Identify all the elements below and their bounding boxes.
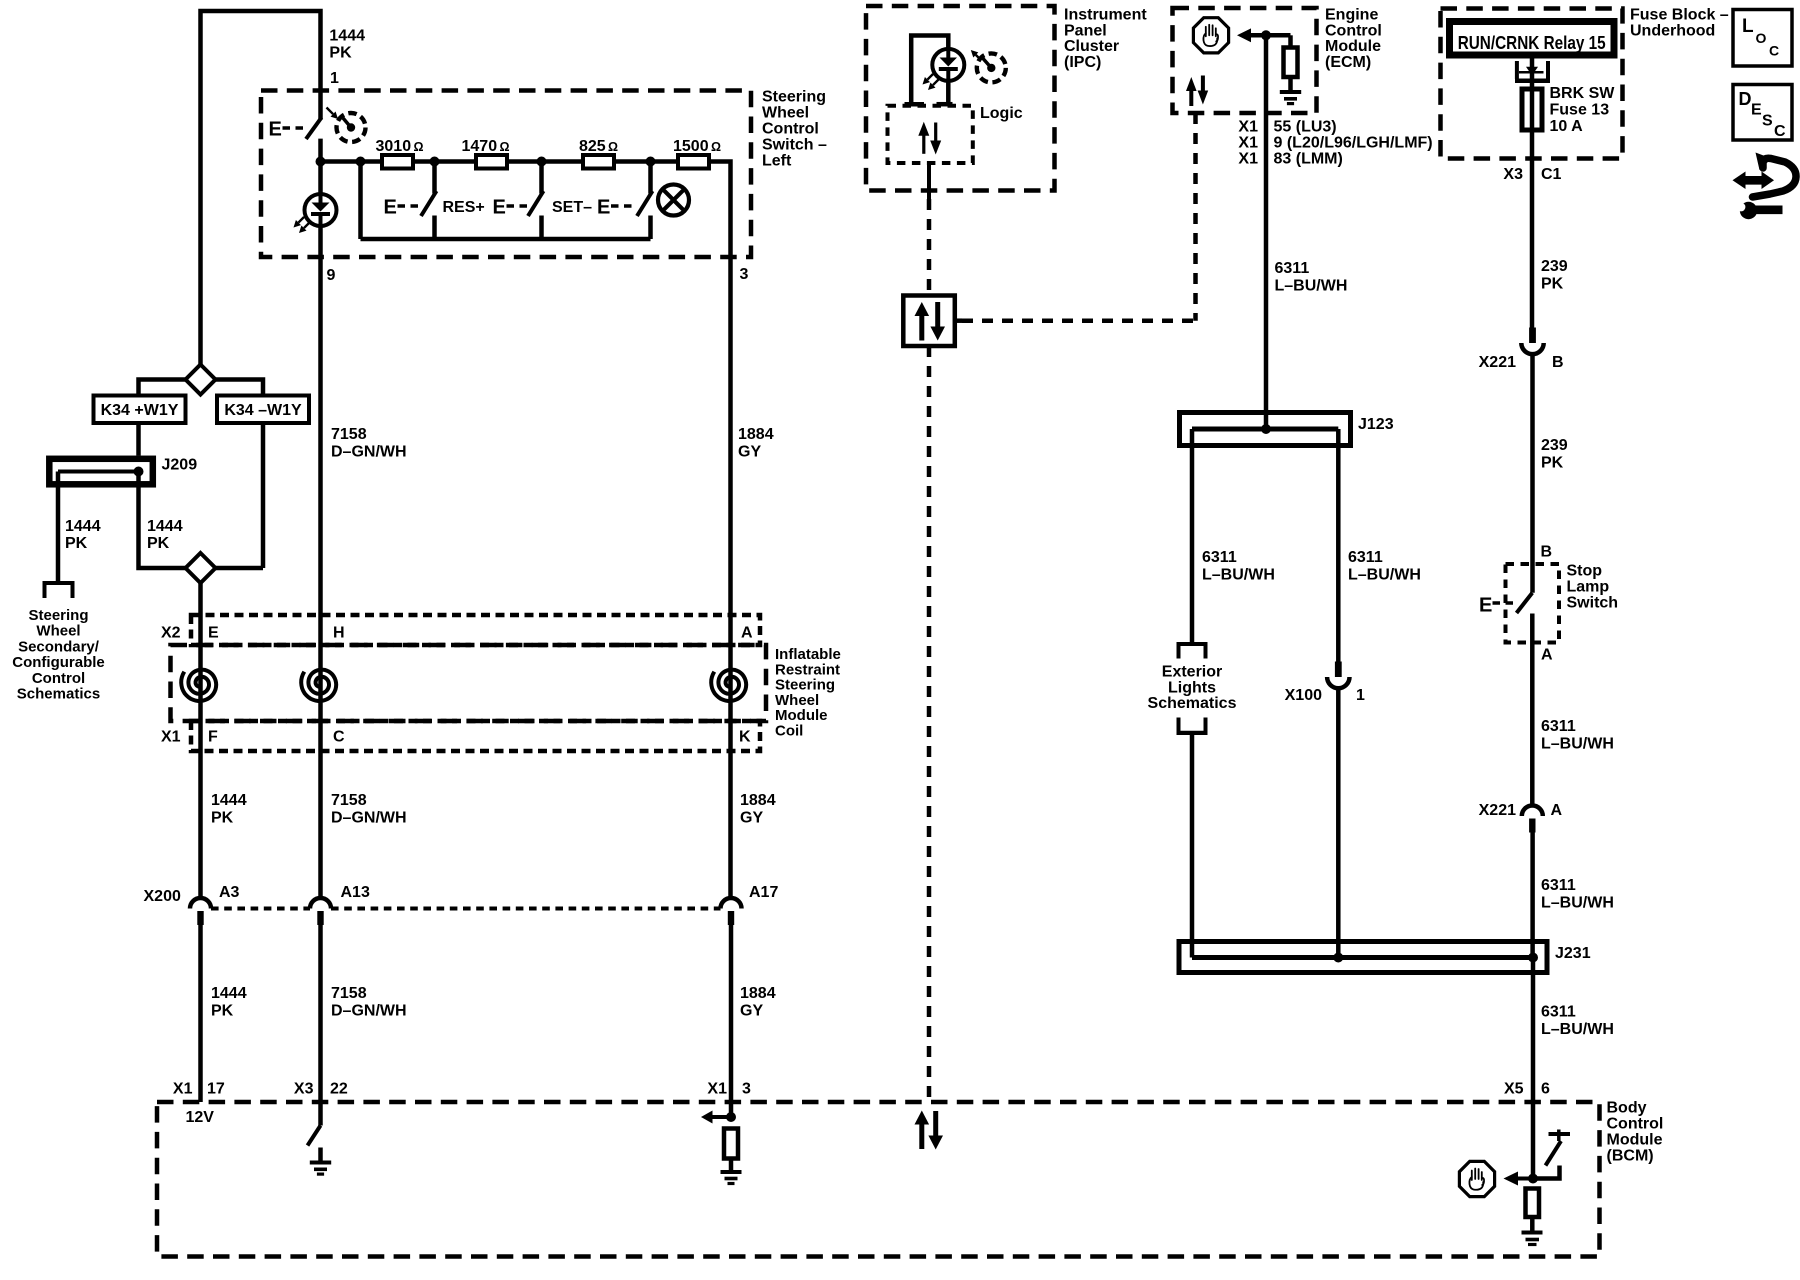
- svg-text:F: F: [208, 729, 218, 746]
- svg-text:C: C: [1774, 123, 1786, 140]
- svg-text:X1: X1: [707, 1081, 727, 1098]
- svg-text:L–BU/WH: L–BU/WH: [1202, 567, 1275, 584]
- svg-text:(BCM): (BCM): [1607, 1148, 1654, 1165]
- svg-text:RUN/CRNK Relay 15: RUN/CRNK Relay 15: [1458, 33, 1606, 53]
- svg-text:(ECM): (ECM): [1325, 54, 1371, 71]
- svg-text:Lights: Lights: [1168, 679, 1216, 696]
- svg-text:Ω: Ω: [500, 140, 510, 154]
- svg-text:1444: 1444: [211, 985, 247, 1002]
- svg-text:Module: Module: [1325, 38, 1381, 55]
- svg-text:1884: 1884: [740, 985, 776, 1002]
- svg-text:1884: 1884: [740, 792, 776, 809]
- svg-text:B: B: [1552, 354, 1564, 371]
- svg-text:6311: 6311: [1275, 260, 1310, 277]
- svg-text:Ω: Ω: [711, 140, 721, 154]
- svg-text:9 (L20/L96/LGH/LMF): 9 (L20/L96/LGH/LMF): [1274, 135, 1433, 152]
- svg-text:Logic: Logic: [980, 105, 1023, 122]
- svg-text:Fuse 13: Fuse 13: [1550, 101, 1610, 118]
- svg-text:6311: 6311: [1541, 1004, 1576, 1021]
- svg-text:A17: A17: [749, 884, 778, 901]
- svg-text:E: E: [493, 197, 506, 219]
- svg-text:PK: PK: [329, 45, 352, 62]
- svg-text:RES+: RES+: [443, 199, 485, 216]
- svg-text:S: S: [1762, 113, 1773, 130]
- svg-text:Ω: Ω: [414, 140, 424, 154]
- svg-text:Stop: Stop: [1567, 563, 1603, 580]
- svg-text:Schematics: Schematics: [17, 686, 100, 703]
- svg-text:D–GN/WH: D–GN/WH: [331, 810, 407, 827]
- svg-text:PK: PK: [1541, 276, 1564, 293]
- svg-text:L–BU/WH: L–BU/WH: [1541, 736, 1614, 753]
- svg-text:Panel: Panel: [1064, 22, 1107, 39]
- svg-text:Underhood: Underhood: [1630, 23, 1715, 40]
- svg-text:B: B: [1541, 544, 1553, 561]
- svg-text:E: E: [384, 197, 397, 219]
- svg-text:A13: A13: [341, 884, 370, 901]
- svg-text:E: E: [1751, 102, 1762, 119]
- svg-text:Wheel: Wheel: [762, 105, 809, 122]
- svg-text:Secondary/: Secondary/: [18, 638, 100, 655]
- svg-text:7158: 7158: [331, 792, 367, 809]
- svg-text:O: O: [1756, 30, 1767, 46]
- svg-text:X1: X1: [1238, 135, 1258, 152]
- svg-text:Engine: Engine: [1325, 7, 1378, 24]
- svg-text:K34 –W1Y: K34 –W1Y: [224, 402, 302, 419]
- svg-text:X200: X200: [144, 888, 181, 905]
- svg-text:L–BU/WH: L–BU/WH: [1541, 895, 1614, 912]
- svg-text:Control: Control: [32, 670, 85, 687]
- svg-text:K: K: [739, 729, 751, 746]
- svg-text:X1: X1: [1238, 119, 1258, 136]
- svg-text:A: A: [741, 625, 753, 642]
- svg-text:1884: 1884: [738, 426, 774, 443]
- svg-text:825: 825: [579, 138, 606, 155]
- svg-text:A: A: [1541, 647, 1553, 664]
- svg-text:Steering: Steering: [28, 607, 88, 624]
- svg-text:L–BU/WH: L–BU/WH: [1275, 278, 1348, 295]
- svg-text:3: 3: [742, 1081, 751, 1098]
- svg-text:Configurable: Configurable: [12, 654, 105, 671]
- svg-text:X221: X221: [1479, 802, 1516, 819]
- svg-text:3: 3: [740, 266, 749, 283]
- svg-text:1444: 1444: [147, 518, 183, 535]
- svg-text:Coil: Coil: [775, 723, 803, 740]
- svg-text:GY: GY: [740, 1003, 763, 1020]
- svg-text:A3: A3: [219, 884, 240, 901]
- svg-text:7158: 7158: [331, 985, 367, 1002]
- svg-text:PK: PK: [1541, 455, 1564, 472]
- svg-text:1444: 1444: [65, 518, 101, 535]
- svg-text:D–GN/WH: D–GN/WH: [331, 1003, 407, 1020]
- svg-text:Wheel: Wheel: [36, 623, 80, 640]
- svg-text:SET–: SET–: [552, 199, 592, 216]
- svg-text:6311: 6311: [1202, 549, 1237, 566]
- svg-text:55 (LU3): 55 (LU3): [1274, 119, 1337, 136]
- svg-text:9: 9: [327, 267, 336, 284]
- svg-text:C: C: [1769, 43, 1779, 59]
- svg-text:Switch –: Switch –: [762, 137, 827, 154]
- svg-text:239: 239: [1541, 437, 1568, 454]
- svg-text:D: D: [1739, 89, 1752, 109]
- svg-text:E: E: [208, 625, 219, 642]
- svg-text:1470: 1470: [462, 138, 498, 155]
- svg-text:BRK SW: BRK SW: [1550, 85, 1616, 102]
- svg-text:Schematics: Schematics: [1148, 695, 1237, 712]
- svg-text:X2: X2: [161, 625, 181, 642]
- svg-text:K34 +W1Y: K34 +W1Y: [101, 402, 179, 419]
- svg-text:E: E: [269, 119, 282, 141]
- svg-text:7158: 7158: [331, 426, 367, 443]
- svg-text:1444: 1444: [211, 792, 247, 809]
- svg-text:Control: Control: [1325, 22, 1382, 39]
- svg-text:X5: X5: [1504, 1081, 1524, 1098]
- svg-text:Exterior: Exterior: [1162, 664, 1222, 681]
- svg-text:J209: J209: [162, 457, 198, 474]
- svg-text:D–GN/WH: D–GN/WH: [331, 444, 407, 461]
- svg-text:Body: Body: [1607, 1100, 1647, 1117]
- svg-text:1: 1: [330, 70, 339, 87]
- svg-text:X1: X1: [173, 1081, 193, 1098]
- svg-text:6311: 6311: [1348, 549, 1383, 566]
- svg-text:6311: 6311: [1541, 718, 1576, 735]
- svg-text:6: 6: [1541, 1081, 1550, 1098]
- svg-text:J231: J231: [1555, 945, 1591, 962]
- svg-text:Control: Control: [1607, 1116, 1664, 1133]
- svg-text:C1: C1: [1541, 166, 1562, 183]
- svg-text:L: L: [1742, 16, 1754, 37]
- svg-text:X3: X3: [1503, 166, 1523, 183]
- svg-text:17: 17: [207, 1081, 225, 1098]
- svg-text:J123: J123: [1358, 416, 1394, 433]
- svg-text:Ω: Ω: [608, 140, 618, 154]
- svg-text:GY: GY: [738, 444, 761, 461]
- svg-text:E: E: [1479, 595, 1492, 617]
- svg-text:H: H: [333, 625, 345, 642]
- svg-text:22: 22: [330, 1081, 348, 1098]
- svg-text:Steering: Steering: [762, 89, 826, 106]
- svg-text:239: 239: [1541, 258, 1568, 275]
- svg-text:Switch: Switch: [1567, 595, 1619, 612]
- svg-text:X100: X100: [1285, 687, 1322, 704]
- svg-text:Left: Left: [762, 153, 792, 170]
- svg-text:10 A: 10 A: [1550, 118, 1584, 135]
- svg-text:X1: X1: [1238, 151, 1258, 168]
- svg-text:A: A: [1551, 802, 1563, 819]
- svg-text:83 (LMM): 83 (LMM): [1274, 151, 1343, 168]
- svg-text:PK: PK: [211, 1003, 234, 1020]
- svg-text:Fuse Block –: Fuse Block –: [1630, 7, 1729, 24]
- svg-text:X221: X221: [1479, 354, 1516, 371]
- svg-text:PK: PK: [65, 535, 88, 552]
- svg-text:C: C: [333, 729, 345, 746]
- svg-text:PK: PK: [147, 535, 170, 552]
- svg-text:E: E: [597, 197, 610, 219]
- svg-text:6311: 6311: [1541, 877, 1576, 894]
- svg-text:PK: PK: [211, 810, 234, 827]
- svg-text:GY: GY: [740, 810, 763, 827]
- svg-text:(IPC): (IPC): [1064, 54, 1101, 71]
- svg-text:Module: Module: [1607, 1132, 1663, 1149]
- svg-text:1444: 1444: [329, 28, 365, 45]
- svg-text:12V: 12V: [186, 1109, 215, 1126]
- svg-text:Lamp: Lamp: [1567, 579, 1610, 596]
- svg-text:Control: Control: [762, 121, 819, 138]
- svg-text:1: 1: [1356, 687, 1365, 704]
- svg-text:3010: 3010: [376, 138, 412, 155]
- svg-text:Cluster: Cluster: [1064, 38, 1119, 55]
- svg-text:1500: 1500: [673, 138, 709, 155]
- svg-text:X1: X1: [161, 729, 181, 746]
- svg-text:L–BU/WH: L–BU/WH: [1541, 1021, 1614, 1038]
- svg-text:X3: X3: [294, 1081, 314, 1098]
- svg-text:L–BU/WH: L–BU/WH: [1348, 567, 1421, 584]
- svg-text:Instrument: Instrument: [1064, 7, 1147, 24]
